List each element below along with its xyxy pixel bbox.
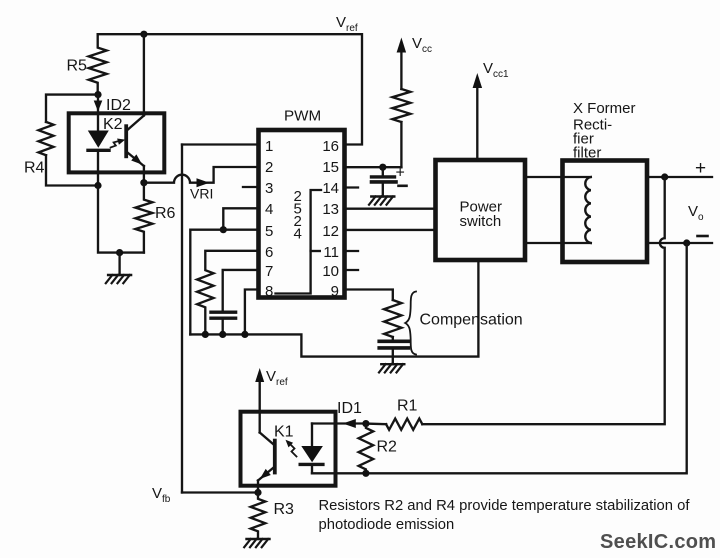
supply Vcc1 arrow (473, 60, 509, 160)
svg-text:15: 15 (322, 159, 339, 176)
optocoupler K2 box (69, 113, 165, 172)
phototransistor of K1 (258, 412, 275, 493)
wire pin 12 to power switch (345, 229, 436, 231)
wire Vfb riser vertical (181, 145, 183, 493)
ground below K2 (106, 253, 131, 284)
resistor on pin 6 (197, 251, 258, 335)
diode current ID2 arrow (94, 95, 131, 114)
wire power switch to transformer top (525, 176, 591, 178)
svg-text:Compensation: Compensation (420, 312, 523, 329)
svg-text:K1: K1 (274, 424, 294, 441)
light arrow K1 (286, 440, 297, 457)
supply Vref arrow at K1 (255, 368, 288, 412)
svg-text:14: 14 (322, 180, 339, 197)
resistor R5 (67, 34, 107, 94)
svg-text:13: 13 (322, 201, 339, 218)
wire pin 8 down (245, 290, 259, 335)
svg-text:SeekIC.com: SeekIC.com (600, 531, 716, 553)
wire K2 bottom to ground (98, 186, 144, 253)
power switch block (436, 160, 526, 260)
svg-text:Vo: Vo (688, 203, 704, 223)
inductor coil L1 (585, 177, 591, 243)
svg-text:3: 3 (265, 180, 273, 197)
svg-text:X Former: X Former (573, 100, 636, 117)
svg-text:9: 9 (331, 283, 339, 300)
svg-text:K2: K2 (103, 116, 123, 133)
capacitor on pin 7 (211, 270, 259, 335)
svg-text:1: 1 (265, 138, 273, 155)
wire pin 9 to compensation (345, 290, 393, 301)
ground bus under chip to power switch (190, 260, 478, 357)
ground at pin 15 cap (369, 197, 394, 205)
resistor R3 (251, 493, 294, 540)
pin 10 stub (345, 269, 359, 271)
svg-text:ID1: ID1 (337, 400, 362, 417)
svg-text:R5: R5 (67, 58, 88, 75)
light arrow K2 (111, 139, 126, 148)
ground at compensation (379, 364, 404, 372)
pin 14 stub (345, 186, 359, 188)
wire + output (647, 176, 712, 178)
optocoupler K1 box (241, 412, 336, 486)
polarized capacitor at pin 15 (372, 165, 407, 197)
node bus pin7 (219, 331, 226, 338)
caption text (319, 498, 691, 533)
node ground tap (116, 249, 123, 256)
wire ID1 into K1 diode with arrow (312, 400, 366, 428)
pin 11 stub (345, 250, 359, 252)
resistor R4 and parallel loop wires (24, 95, 98, 186)
pin numbers right 16-9 (322, 138, 339, 300)
part number 2524 vertical (294, 188, 302, 243)
photodiode of K2 (88, 113, 109, 185)
compensation capacitor (379, 337, 408, 364)
node R1/R2/ID1 (362, 420, 369, 427)
resistor R2 (359, 424, 397, 474)
pin 3 stub (243, 186, 259, 188)
svg-text:Vcc: Vcc (412, 35, 432, 55)
svg-text:photodiode emission: photodiode emission (319, 517, 455, 533)
wire + feedback rail with hop (422, 177, 664, 424)
wire Vref top bus (98, 34, 362, 144)
svg-text:10: 10 (322, 263, 339, 280)
svg-text:Vref: Vref (266, 368, 288, 388)
wire pin 1 to Vfb riser (182, 143, 259, 145)
svg-text:R3: R3 (274, 501, 295, 518)
svg-text:12: 12 (322, 223, 339, 240)
photodiode of K1 (300, 424, 323, 474)
svg-text:4: 4 (265, 201, 273, 218)
svg-text:filter: filter (573, 145, 601, 162)
svg-text:PWM: PWM (284, 108, 321, 125)
svg-text:16: 16 (322, 138, 339, 155)
node diode cathode / R4 bottom (94, 182, 101, 189)
svg-text:R2: R2 (377, 439, 398, 456)
svg-text:6: 6 (265, 244, 273, 261)
svg-text:Vref: Vref (336, 14, 358, 34)
node bus pin8 (241, 331, 248, 338)
svg-text:11: 11 (323, 244, 339, 261)
supply Vcc arrow and resistor (392, 35, 432, 167)
compensation brace and label (405, 292, 522, 355)
wire pin 15 (345, 166, 402, 168)
svg-text:R1: R1 (397, 398, 418, 415)
wire - output (647, 242, 712, 244)
svg-text:R4: R4 (24, 160, 45, 177)
svg-text:8: 8 (265, 283, 273, 300)
node + output (661, 173, 668, 180)
phototransistor of K2 (126, 34, 144, 183)
wire Vfb (152, 485, 258, 505)
resistor R6 (135, 183, 175, 253)
op-amp/PWM controller U1 box (259, 130, 345, 298)
ground below R3 (244, 539, 269, 547)
wire pin 4 down to pin 5 (223, 208, 258, 229)
resistor R1 (366, 398, 422, 430)
svg-text:7: 7 (265, 263, 273, 280)
pin numbers left 1-8 (265, 138, 273, 300)
svg-text:Resistors R2 and R4 provide te: Resistors R2 and R4 provide temperature … (319, 498, 691, 514)
svg-text:+: + (396, 165, 405, 182)
node R2 bottom (362, 470, 369, 477)
internal net pin8-11-14 (276, 190, 322, 294)
svg-text:Vcc1: Vcc1 (483, 60, 509, 80)
transformer rectifier filter block (563, 100, 648, 262)
wire pin 13 to power switch (345, 208, 436, 210)
node Vfb / R3 / emitter (254, 489, 261, 496)
svg-text:2: 2 (265, 159, 273, 176)
node pin15 cap tap (379, 164, 386, 171)
svg-text:5: 5 (265, 223, 273, 240)
svg-text:4: 4 (294, 226, 302, 243)
node pin4/pin5 (220, 226, 227, 233)
wire power switch to transformer bottom (525, 242, 591, 244)
- label (698, 235, 708, 238)
svg-text:Vfb: Vfb (152, 485, 171, 505)
wire - feedback rail (312, 243, 687, 473)
node junction top wire to K2 collector (140, 31, 147, 38)
wire pin 5 to ground bus (190, 230, 258, 335)
wire VRI with crossover hop and arrow to pin 2 (144, 167, 259, 202)
node bus pin6 (202, 331, 209, 338)
node R5 bottom / R4 tap (94, 91, 101, 98)
svg-text:switch: switch (460, 213, 502, 230)
svg-text:VRI: VRI (190, 186, 213, 202)
svg-text:+: + (695, 158, 706, 179)
compensation resistor (384, 300, 401, 337)
node K2 emitter / R6 / VRI takeoff (140, 179, 147, 186)
svg-text:R6: R6 (155, 205, 176, 222)
node - output (683, 239, 690, 246)
